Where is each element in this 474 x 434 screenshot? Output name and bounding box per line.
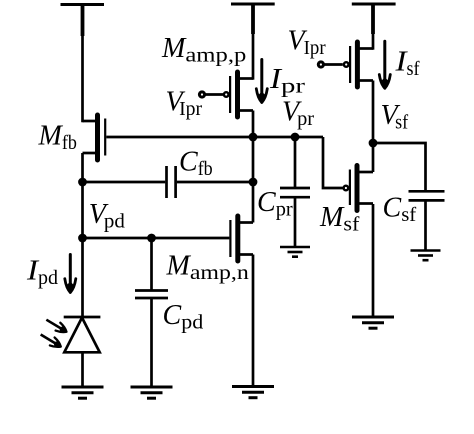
ground (M_amp,n) (232, 387, 274, 398)
node dot C_fb right (249, 178, 258, 187)
wire: photodiode to ground (81, 352, 84, 387)
wire: M_sf drain to ground (372, 204, 375, 317)
wire: C_sf stem bottom (424, 200, 427, 250)
wire: V_Ipr terminal to M_amp,p gate (204, 93, 224, 96)
svg-text:Mamp,p: Mamp,p (161, 33, 246, 67)
node dot V_pr/C_pr (291, 133, 300, 142)
photodiode D (cathode bar) (64, 316, 101, 319)
wire: C_pd stem top (150, 238, 153, 291)
current arrow I_pr (256, 60, 267, 103)
wire: V_Ipr terminal to pmos gate (top right) (322, 63, 342, 66)
transistor M_fb (83, 115, 106, 160)
node dot V_pd (78, 234, 87, 243)
wire: left rail M_fb source down to photodiode (81, 153, 84, 317)
ground (C_sf) small (411, 251, 441, 261)
svg-text:Msf: Msf (319, 202, 360, 236)
wire: C_pr stem bottom (294, 197, 297, 247)
wire: pmos drain to V_sf node (372, 81, 375, 144)
transistor M_amp,n (230, 216, 253, 261)
svg-text:Mfb: Mfb (38, 121, 77, 155)
transistor M_sf (344, 166, 373, 211)
light arrow 2 (38, 331, 63, 351)
capacitor C_pd (135, 291, 168, 299)
capacitor C_pr (280, 188, 310, 197)
photodiode D (triangle) (64, 318, 99, 353)
svg-text:VIpr: VIpr (288, 26, 326, 60)
node dot V_pr/M_amp,p drain (249, 133, 258, 142)
wire: M_fb gate line y=137 to M_sf branch (106, 136, 323, 139)
vdd rail right (352, 4, 396, 50)
light arrow 1 (44, 316, 69, 336)
svg-text:Vpr: Vpr (282, 97, 314, 131)
node dot V_sf (369, 139, 378, 148)
wire: V_pr to M_sf gate (jog) (323, 137, 343, 188)
terminal V_Ipr (mid) (198, 90, 206, 98)
capacitor C_sf (409, 191, 445, 200)
transistor M_amp,p (224, 72, 253, 117)
node dot C_pd top (147, 234, 156, 243)
ground (photodiode) (62, 387, 104, 398)
svg-text:Ipd: Ipd (26, 256, 58, 290)
node dot V_pd/C_fb junction (78, 178, 87, 187)
ground (C_pd) (131, 387, 173, 398)
wire: C_pd stem bottom (150, 298, 153, 387)
svg-text:Ipr: Ipr (269, 64, 306, 98)
capacitor C_fb (167, 166, 176, 198)
terminal V_Ipr (top right) (317, 60, 325, 68)
current arrow I_pd (65, 255, 76, 293)
wire: M_amp,p drain down to V_pr line (252, 111, 255, 223)
wire: M_amp,n source to ground (252, 255, 255, 387)
svg-text:Csf: Csf (383, 193, 417, 227)
svg-text:Cpd: Cpd (163, 300, 204, 334)
wire: C_fb left (83, 181, 166, 184)
svg-text:Vsf: Vsf (381, 100, 409, 134)
wire: V_pd node line y=237.5 (83, 237, 230, 240)
transistor M_Isf (pmos current source) (344, 42, 373, 87)
wire: V_sf node to M_sf source (372, 143, 375, 172)
vdd rail left (61, 5, 105, 123)
svg-text:Vpd: Vpd (89, 199, 125, 233)
ground (C_pr) small (280, 247, 310, 257)
vdd rail middle (231, 4, 275, 80)
ground (M_sf) (352, 317, 394, 328)
svg-text:Cfb: Cfb (179, 147, 213, 181)
svg-text:Cpr: Cpr (257, 187, 293, 221)
current arrow I_sf (379, 41, 390, 88)
wire: V_sf node to C_sf (373, 143, 426, 191)
svg-text:Isf: Isf (394, 47, 419, 81)
wire: C_fb right (177, 181, 253, 184)
wire: C_pr stem top (294, 137, 297, 188)
svg-text:VIpr: VIpr (166, 87, 203, 121)
